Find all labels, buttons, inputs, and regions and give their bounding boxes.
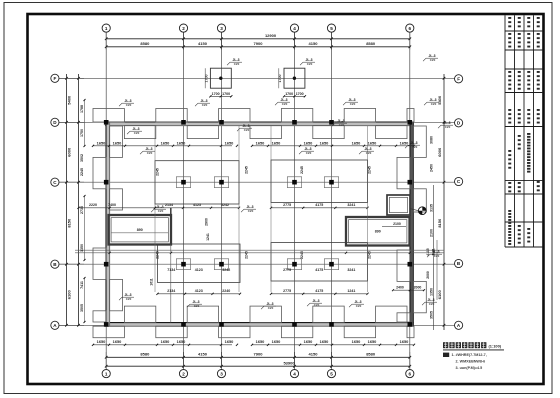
svg-text:C20: C20 [356,304,362,308]
svg-text:C20: C20 [412,145,418,149]
svg-text:4150: 4150 [309,41,319,46]
svg-text:2775: 2775 [283,203,291,207]
svg-text:C20: C20 [194,304,200,308]
svg-text:1650: 1650 [225,141,234,146]
svg-text:1650: 1650 [352,141,361,146]
svg-text:1650: 1650 [368,141,377,146]
svg-text:C20: C20 [147,151,153,155]
svg-text:3080: 3080 [430,136,434,144]
svg-text:2245: 2245 [300,166,304,174]
svg-text:1650: 1650 [161,339,170,344]
svg-text:C20: C20 [314,303,320,307]
svg-text:2245: 2245 [368,166,372,174]
svg-text:53900: 53900 [283,361,295,366]
svg-text:3502: 3502 [80,154,84,162]
svg-text:4150: 4150 [198,41,208,46]
svg-text:C20: C20 [306,151,312,155]
svg-text:2245: 2245 [368,251,372,259]
svg-text:2100: 2100 [430,229,434,237]
svg-text:8150: 8150 [67,218,72,228]
svg-text:2450: 2450 [430,164,434,172]
svg-text:4123: 4123 [195,268,203,272]
svg-text:1: 1 [105,26,108,31]
svg-text:C20: C20 [434,254,440,258]
svg-text:8580: 8580 [366,352,376,357]
svg-text:7900: 7900 [254,41,264,46]
svg-text:2735: 2735 [80,206,84,214]
svg-text:6100: 6100 [437,290,442,300]
svg-text:1650: 1650 [320,339,329,344]
svg-text:2134: 2134 [165,203,173,207]
svg-text:1650: 1650 [352,339,361,344]
svg-text:6: 6 [409,26,412,31]
svg-text:6000: 6000 [437,147,442,157]
svg-text:2134: 2134 [167,289,175,293]
svg-text:2245: 2245 [156,251,160,259]
svg-text:C20: C20 [268,306,274,310]
svg-text:3135: 3135 [430,204,434,212]
svg-text:4175: 4175 [315,203,323,207]
svg-text:7900: 7900 [254,352,264,357]
svg-text:5400: 5400 [67,95,72,105]
svg-text:1650: 1650 [97,141,106,146]
svg-text:C20: C20 [126,297,132,301]
svg-text:4175: 4175 [315,268,323,272]
svg-text:1350: 1350 [80,244,84,252]
svg-text:1650: 1650 [272,339,281,344]
svg-text:2245: 2245 [300,251,304,259]
svg-text:1650: 1650 [256,339,265,344]
svg-text:2245: 2245 [156,168,160,176]
svg-text:4: 4 [293,371,296,376]
svg-text:7411: 7411 [80,281,84,289]
svg-text:3. uun(P.M)=4.5: 3. uun(P.M)=4.5 [456,366,483,370]
svg-text:2240: 2240 [222,289,230,293]
svg-text:1611: 1611 [150,278,154,285]
svg-text:C20: C20 [158,209,164,213]
svg-text:2220: 2220 [89,203,97,207]
svg-text:3505: 3505 [80,304,84,312]
svg-text:1: 1 [105,371,108,376]
svg-text:1750: 1750 [80,129,84,137]
svg-text:C20: C20 [282,102,288,106]
svg-text:C20: C20 [126,103,132,107]
svg-text:3: 3 [220,371,223,376]
svg-text:2: 2 [182,26,185,31]
svg-text:C20: C20 [366,151,372,155]
svg-text:2: 2 [182,371,185,376]
svg-text:1650: 1650 [256,141,265,146]
svg-text:890: 890 [375,230,381,234]
svg-text:1700: 1700 [296,92,304,96]
svg-text:1650: 1650 [304,141,313,146]
svg-text:2900: 2900 [205,218,209,226]
svg-text:1350: 1350 [430,288,434,296]
svg-text:6: 6 [409,371,412,376]
svg-text:(1:100): (1:100) [489,343,502,348]
svg-text:C20: C20 [244,128,250,132]
svg-text:1650: 1650 [320,141,329,146]
svg-text:7134: 7134 [167,268,175,272]
svg-text:3242: 3242 [221,203,229,207]
svg-text:890: 890 [137,228,143,232]
svg-text:2400: 2400 [396,286,404,290]
svg-text:4175: 4175 [315,289,323,293]
svg-text:F: F [457,77,460,82]
svg-text:1700: 1700 [222,92,230,96]
svg-text:2245: 2245 [245,251,249,259]
svg-text:1700: 1700 [212,92,220,96]
svg-text:2. WMXEBNW8-6: 2. WMXEBNW8-6 [456,360,486,364]
svg-text:4: 4 [293,26,296,31]
svg-text:C20: C20 [202,103,208,107]
svg-text:C20: C20 [339,123,345,127]
svg-text:12900: 12900 [265,33,277,38]
svg-text:1650: 1650 [400,141,409,146]
svg-text:3505: 3505 [430,311,434,319]
svg-text:1650: 1650 [400,339,409,344]
svg-text:3: 3 [220,26,223,31]
svg-text:1650: 1650 [97,339,106,344]
svg-text:4123: 4123 [195,289,203,293]
svg-text:7400: 7400 [108,203,116,207]
svg-text:5: 5 [330,26,333,31]
svg-text:1650: 1650 [177,141,186,146]
svg-text:4123: 4123 [193,203,201,207]
svg-text:C20: C20 [430,58,436,62]
svg-text:6000: 6000 [67,147,72,157]
svg-text:C20: C20 [234,62,240,66]
svg-text:8580: 8580 [366,41,376,46]
svg-text:5400: 5400 [437,95,442,105]
svg-text:8150: 8150 [437,218,442,228]
svg-text:2775: 2775 [283,268,291,272]
svg-text:C20: C20 [429,302,435,306]
svg-text:1650: 1650 [161,141,170,146]
svg-text:1650: 1650 [368,339,377,344]
svg-text:F: F [53,76,56,81]
svg-text:2775: 2775 [283,289,291,293]
svg-text:C20: C20 [445,125,451,129]
svg-text:8580: 8580 [140,41,150,46]
svg-text:2245: 2245 [245,166,249,174]
svg-text:1788: 1788 [80,105,84,113]
svg-text:4150: 4150 [309,352,319,357]
svg-text:C20: C20 [248,209,254,213]
svg-text:4150: 4150 [198,352,208,357]
svg-text:2100: 2100 [393,222,401,226]
svg-text:1241: 1241 [206,233,210,241]
svg-text:2245: 2245 [80,168,84,176]
svg-text:3242: 3242 [222,268,230,272]
svg-text:2000: 2000 [414,286,422,290]
svg-text:8580: 8580 [140,352,150,357]
svg-text:1650: 1650 [304,339,313,344]
svg-text:1650: 1650 [272,141,281,146]
svg-text:5: 5 [330,371,333,376]
svg-text:1700: 1700 [285,92,293,96]
svg-text:1650: 1650 [113,339,122,344]
svg-text:2000: 2000 [426,271,430,279]
svg-text:1241: 1241 [347,289,355,293]
svg-text:3241: 3241 [347,268,355,272]
svg-text:C20: C20 [431,102,437,106]
svg-text:1650: 1650 [113,141,122,146]
svg-text:3241: 3241 [347,203,355,207]
svg-text:1650: 1650 [177,339,186,344]
svg-text:6100: 6100 [67,290,72,300]
svg-text:1. #WHRE(7.7M12-7,: 1. #WHRE(7.7M12-7, [452,353,487,357]
svg-text:C20: C20 [134,131,140,135]
svg-text:C20: C20 [307,62,313,66]
svg-text:1650: 1650 [225,339,234,344]
svg-text:C20: C20 [350,102,356,106]
